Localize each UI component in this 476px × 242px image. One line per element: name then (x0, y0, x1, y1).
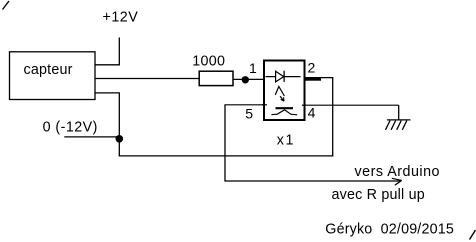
arrowhead (392, 178, 402, 180)
junction dot node 1 (242, 76, 249, 83)
phototransistor body curve (272, 110, 298, 115)
svg-text:avec R pull up: avec R pull up (332, 187, 425, 203)
svg-text:vers Arduino: vers Arduino (355, 164, 440, 180)
junction dot node 0V (116, 135, 124, 143)
wire vertical through 0V node (118, 93, 120, 156)
LED triangle (276, 71, 284, 82)
pin 5 inner stub (262, 104, 267, 106)
svg-text:+12V: +12V (103, 10, 139, 26)
wire pin2 bold stub (306, 78, 322, 81)
wire +12V vertical (118, 38, 120, 65)
svg-text:5: 5 (245, 105, 253, 121)
svg-text:capteur: capteur (24, 62, 73, 78)
wire pin2 vertical down (332, 78, 334, 157)
light arrow zigzag (275, 87, 284, 97)
wire capteur bottom stub (96, 92, 120, 94)
wire pin2 horizontal (305, 77, 334, 79)
wire pin5 horizontal (224, 104, 264, 106)
corner tick bottom-right (470, 230, 476, 240)
arrow line to Arduino (225, 180, 401, 182)
svg-text:1000: 1000 (192, 54, 225, 70)
LED cathode bar (283, 71, 285, 82)
wire ground riser (398, 105, 400, 120)
pin 4 inner stub (302, 104, 306, 106)
capteur box (10, 52, 96, 100)
corner tick top-left (3, 1, 10, 10)
wire +12V horizontal to capteur (96, 64, 120, 66)
svg-text:1: 1 (249, 60, 257, 76)
wire 0V bottom horizontal (119, 155, 334, 157)
svg-text:Géryko 02/09/2015: Géryko 02/09/2015 (325, 222, 454, 238)
wire pin5 vertical down (224, 105, 226, 182)
svg-text:2: 2 (308, 60, 316, 76)
wire capteur output to resistor (95, 78, 200, 80)
svg-text:0 (-12V): 0 (-12V) (43, 120, 98, 136)
phototransistor base bar (276, 107, 294, 109)
resistor R 1000 (199, 71, 233, 85)
ground hatch lines (386, 121, 407, 130)
svg-text:4: 4 (308, 105, 316, 121)
wire resistor to opto pin1 (233, 78, 264, 80)
LED anode-cathode line inside opto (266, 76, 301, 78)
wire 0V label lead (64, 136, 119, 138)
wire pin4 to ground (305, 104, 399, 106)
svg-text:x1: x1 (277, 133, 295, 149)
opto-coupler x1 box (264, 61, 305, 121)
ground chassis bar (387, 119, 411, 121)
